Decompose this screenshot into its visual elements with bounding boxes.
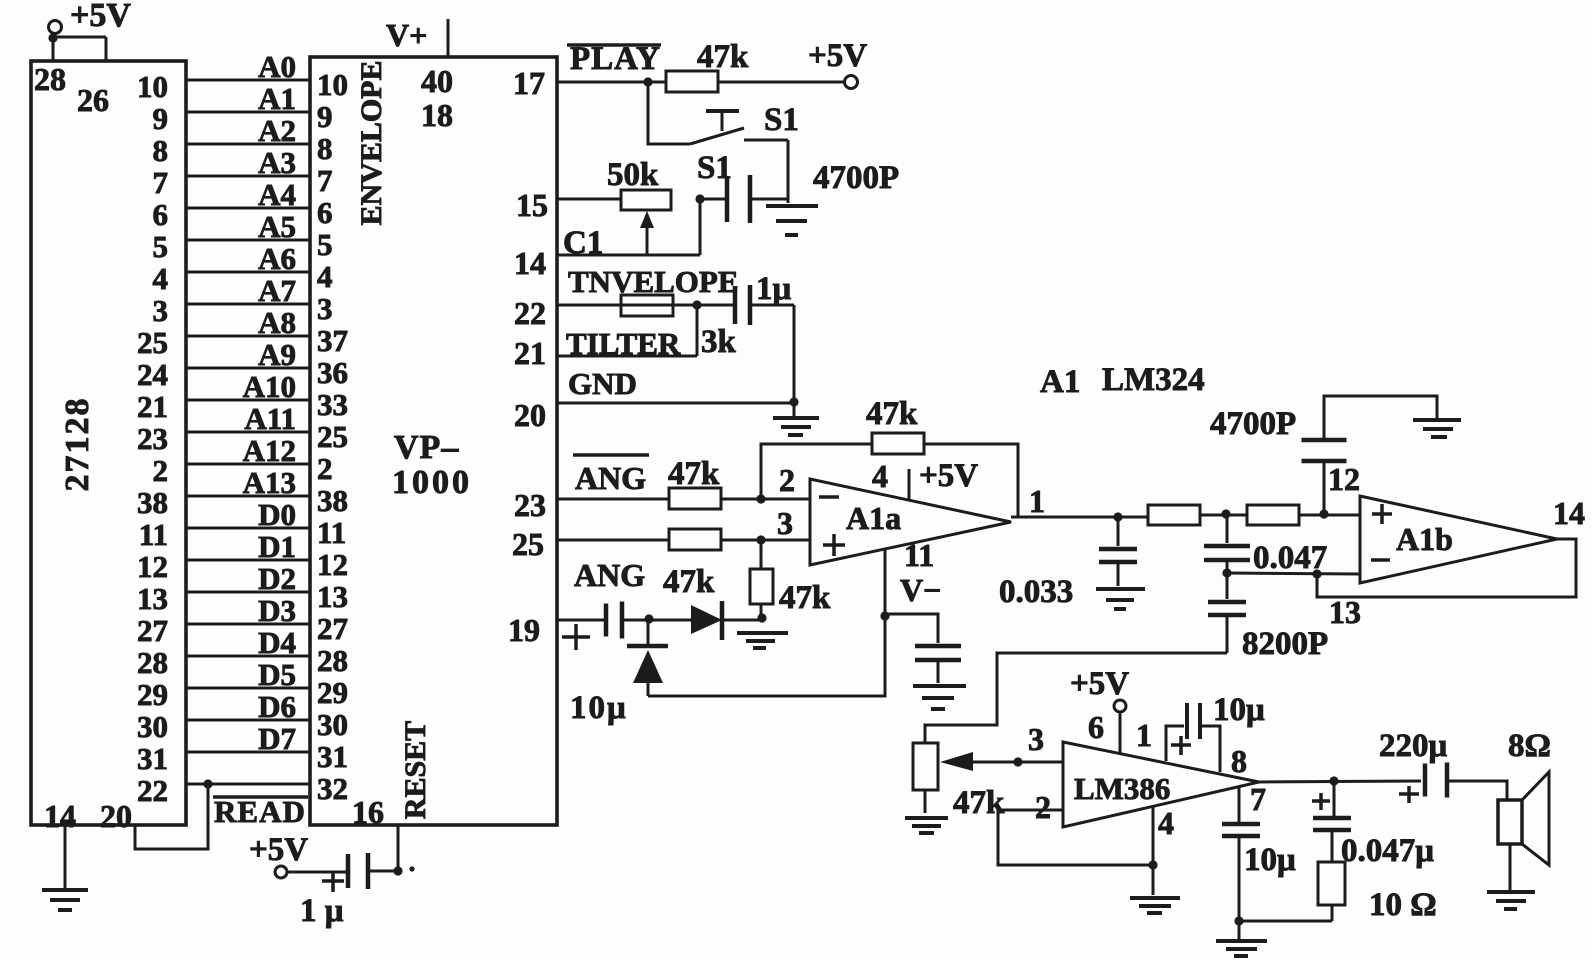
VP-1000 pin 16 label [352, 794, 384, 830]
svg-text:25: 25 [512, 526, 544, 562]
svg-text:13: 13 [317, 579, 348, 614]
svg-text:7: 7 [317, 163, 333, 198]
svg-text:20: 20 [100, 798, 132, 834]
svg-text:+5V: +5V [808, 38, 867, 74]
wire to A1a pin 3 [721, 535, 810, 544]
VP-1000 pin 40 V+ lead [386, 17, 448, 57]
svg-text:29: 29 [317, 675, 348, 710]
wire D1: 27128 pin 12 to VP-1000 pin 12 [137, 529, 348, 584]
svg-text:23: 23 [514, 487, 546, 523]
svg-text:+5V: +5V [1070, 666, 1129, 702]
ground (S1 / 4700P) [766, 206, 818, 235]
svg-text:12: 12 [1328, 461, 1360, 497]
svg-text:8Ω: 8Ω [1508, 728, 1551, 764]
label 10 ohm [1369, 887, 1437, 923]
svg-text:3k: 3k [701, 324, 737, 360]
wire 8200P to volume pot [925, 653, 1227, 743]
svg-text:15: 15 [516, 187, 548, 223]
svg-text:D6: D6 [258, 689, 296, 724]
svg-text:16: 16 [352, 794, 384, 830]
wire to VP-1000 pin 16 [398, 825, 415, 872]
wire A11: 27128 pin 23 to VP-1000 pin 25 [137, 401, 348, 456]
label ANG [574, 557, 645, 593]
VP-1000 pin 25 label [512, 526, 544, 562]
svg-text:19: 19 [508, 612, 540, 648]
svg-text:20: 20 [514, 397, 546, 433]
LM386 pin 1 label [1136, 717, 1152, 753]
svg-text:220μ: 220μ [1379, 728, 1448, 764]
svg-text:4: 4 [872, 458, 888, 494]
label 0.033 [999, 574, 1073, 610]
capacitor C2 4700P (keying) [695, 175, 788, 223]
svg-text:4: 4 [153, 261, 169, 296]
svg-text:1: 1 [1136, 717, 1152, 753]
A1b pin 14 label [1553, 495, 1585, 531]
LM386 pin 6 (+5V) [1070, 666, 1129, 754]
svg-text:2: 2 [779, 462, 795, 498]
svg-text:10μ: 10μ [1213, 692, 1265, 728]
wire A10: 27128 pin 21 to VP-1000 pin 33 [137, 369, 348, 424]
A1a pin 11 lead (V-) [880, 537, 941, 621]
capacitor C11 0.047u (zobel, + mark) [1312, 781, 1351, 862]
VP-1000 pin 20 label [514, 397, 546, 433]
label S1 (lower) [697, 150, 732, 186]
wire A7: 27128 pin 3 to VP-1000 pin 3 [153, 273, 333, 328]
wire LM386 output [1259, 776, 1421, 785]
IC U2 VP-1000 body [310, 57, 557, 825]
svg-text:1000: 1000 [392, 464, 472, 501]
capacitor C6 0.033 (to ground) [1099, 517, 1137, 586]
op-amp U3A A1a (LM324) [810, 479, 1011, 565]
wire VP-1000 pin 20 (GND) [558, 397, 799, 406]
svg-text:3: 3 [153, 293, 169, 328]
wire VP-1000 pin 15 [558, 198, 621, 201]
wiper wire to LM386 pin 3 [940, 752, 1063, 771]
svg-text:28: 28 [317, 643, 348, 678]
svg-text:40: 40 [421, 63, 453, 99]
speaker BL 8 ohm [1498, 772, 1549, 865]
wire A0: 27128 pin 10 to VP-1000 pin 10 [137, 49, 348, 104]
svg-text:D7: D7 [258, 721, 296, 756]
LM386 pin 2 label [1035, 789, 1051, 825]
svg-text:29: 29 [137, 677, 168, 712]
IC U1 27128 EPROM body [31, 61, 186, 825]
svg-text:1: 1 [1029, 483, 1045, 519]
wire READ loop: 27128 pin 22/20 to bus [135, 784, 208, 849]
wire D7: 27128 pin 31 to VP-1000 pin 31 [137, 721, 348, 776]
ground (LM386 pin 4) [1130, 898, 1180, 913]
ground (R6 / D1) [737, 633, 788, 648]
svg-text:14: 14 [44, 798, 76, 834]
svg-text:7: 7 [153, 165, 169, 200]
svg-text:GND: GND [568, 366, 637, 401]
A1b pin 12 label [1328, 461, 1360, 497]
svg-text:37: 37 [317, 323, 348, 358]
svg-text:18: 18 [421, 97, 453, 133]
LM386 pin 7 bypass [1222, 781, 1266, 926]
svg-text:47k: 47k [779, 580, 831, 616]
wire switch to ground node [787, 140, 790, 203]
A1b pin 13 label [1329, 594, 1361, 630]
svg-text:4: 4 [317, 259, 333, 294]
wire PLAY (VP-1000 pin 17) [558, 77, 666, 86]
svg-text:3: 3 [317, 291, 333, 326]
ground (speaker) [1487, 844, 1535, 909]
potentiometer RP1 50k [607, 157, 671, 255]
wire R7 to R8 [1200, 509, 1247, 518]
svg-text:1μ: 1μ [756, 271, 792, 307]
ground (V- filter) [913, 686, 966, 709]
svg-text:6: 6 [1088, 709, 1104, 745]
svg-text:13: 13 [1329, 594, 1361, 630]
wire A12: 27128 pin 2 to VP-1000 pin 2 [153, 433, 333, 488]
op-amp U3B A1b (LM324) [1360, 496, 1557, 583]
svg-text:D4: D4 [258, 625, 296, 660]
svg-text:ANG: ANG [575, 460, 646, 496]
label TILTER [566, 326, 681, 361]
svg-text:8: 8 [317, 131, 333, 166]
svg-text:A9: A9 [258, 337, 296, 372]
label READ (active low) [213, 794, 308, 829]
svg-text:+5V: +5V [919, 458, 978, 494]
svg-text:D3: D3 [258, 593, 296, 628]
svg-text:9: 9 [153, 101, 169, 136]
wire D0: 27128 pin 11 to VP-1000 pin 11 [139, 497, 347, 552]
ground (volume pot) [905, 818, 948, 833]
svg-text:10 Ω: 10 Ω [1369, 887, 1437, 923]
svg-text:26: 26 [77, 82, 109, 118]
svg-text:12: 12 [137, 549, 168, 584]
svg-text:RESET: RESET [399, 721, 432, 819]
svg-text:27: 27 [317, 611, 348, 646]
svg-text:9: 9 [317, 99, 333, 134]
wire to +5V [718, 81, 845, 84]
27128 pin 20 label [100, 798, 132, 834]
svg-text:14: 14 [1553, 495, 1585, 531]
label 4700P (A1b) [1210, 406, 1296, 442]
capacitor C3 1u [735, 271, 792, 325]
A1a pin 4 lead (+5V) [872, 458, 978, 500]
svg-text:27: 27 [137, 613, 168, 648]
label 4700P [813, 160, 899, 196]
power +5V terminal (reset) [249, 832, 308, 878]
svg-text:2: 2 [317, 451, 333, 486]
svg-text:22: 22 [137, 773, 168, 808]
svg-text:28: 28 [137, 645, 168, 680]
svg-text:11: 11 [139, 517, 168, 552]
svg-text:+5V: +5V [70, 0, 131, 34]
op-amp U4 LM386 power amplifier [1063, 742, 1259, 827]
wire to speaker [1447, 781, 1507, 800]
svg-text:17: 17 [513, 65, 545, 101]
wire LM386 pin 2 to ground loop [998, 810, 1158, 870]
VP-1000 pin 40 label [421, 63, 453, 99]
wire ANG (VP-1000 pin 23) [558, 498, 669, 501]
svg-text:23: 23 [137, 421, 168, 456]
label 1u (reset) [300, 893, 344, 929]
svg-text:A4: A4 [258, 177, 296, 212]
wire A2: 27128 pin 8 to VP-1000 pin 8 [153, 113, 333, 168]
ground (C6) [1096, 589, 1145, 609]
svg-text:11: 11 [317, 515, 346, 550]
wire VP-1000 pin 19 (oscillator out) [558, 619, 606, 622]
LM386 pin 4 lead [1153, 805, 1174, 895]
svg-text:LM324: LM324 [1102, 362, 1205, 398]
wire RD/CE: 27128 pin 22 to VP-1000 pin 32 [137, 771, 348, 808]
svg-text:5: 5 [317, 227, 333, 262]
svg-text:2: 2 [153, 453, 169, 488]
svg-text:A8: A8 [258, 305, 296, 340]
svg-text:V+: V+ [386, 17, 427, 53]
resistor R1 47k (PLAY pull-up) [666, 39, 749, 92]
svg-text:8200P: 8200P [1242, 626, 1328, 662]
svg-text:4700P: 4700P [813, 160, 899, 196]
diode D1 (series, to ground) [691, 601, 762, 640]
resistor R8 (filter) [1247, 505, 1299, 525]
svg-text:A13: A13 [243, 465, 296, 500]
svg-text:38: 38 [317, 483, 348, 518]
svg-text:1 μ: 1 μ [300, 893, 344, 929]
svg-text:D2: D2 [258, 561, 296, 596]
svg-text:28: 28 [34, 61, 66, 97]
wire R8 to A1b pin 12 [1299, 509, 1360, 518]
wire A1: 27128 pin 9 to VP-1000 pin 9 [153, 81, 333, 136]
svg-text:S1: S1 [764, 102, 799, 138]
label GND [568, 366, 637, 401]
ground (VP-1000 pin 20) [773, 403, 819, 435]
svg-text:10μ: 10μ [570, 690, 628, 726]
svg-text:30: 30 [137, 709, 168, 744]
svg-text:3: 3 [777, 505, 793, 541]
potentiometer RP2 47k (volume) [913, 743, 1005, 821]
svg-text:25: 25 [317, 419, 348, 454]
svg-text:6: 6 [153, 197, 169, 232]
svg-text:A3: A3 [258, 145, 296, 180]
27128 pin 28 label [34, 61, 66, 97]
VP-1000 pin 14 label [514, 245, 546, 281]
svg-text:A0: A0 [258, 49, 296, 84]
svg-text:31: 31 [137, 741, 168, 776]
A1b output feedback wire [1317, 539, 1576, 597]
svg-text:27128: 27128 [59, 397, 96, 492]
label 10u (pin 7 bypass) [1244, 842, 1296, 878]
label C1 [563, 225, 603, 261]
svg-text:A6: A6 [258, 241, 296, 276]
svg-text:47k: 47k [866, 396, 918, 432]
svg-text:C1: C1 [563, 225, 603, 261]
svg-text:ANG: ANG [574, 557, 645, 593]
svg-text:6: 6 [317, 195, 333, 230]
svg-text:A1a: A1a [846, 500, 901, 536]
wire D5: 27128 pin 29 to VP-1000 pin 29 [137, 657, 348, 712]
27128 pin 26 label [77, 82, 109, 118]
svg-text:0.047μ: 0.047μ [1341, 833, 1434, 869]
svg-text:10: 10 [137, 69, 168, 104]
svg-text:D1: D1 [258, 529, 296, 564]
wire ANG (VP-1000 pin 25) [558, 539, 669, 542]
VP-1000 pin 23 label [514, 487, 546, 523]
svg-text:A5: A5 [258, 209, 296, 244]
svg-text:A11: A11 [244, 401, 296, 436]
svg-text:5: 5 [153, 229, 169, 264]
VP-1000 pin 17 label [513, 65, 545, 101]
capacitor C9 4700P (A1b pin 12 to ground) [1302, 396, 1438, 514]
A1a pin 3 label [777, 505, 793, 541]
label 0.047u [1341, 833, 1434, 869]
VP-1000 pin 22 label [514, 295, 546, 331]
VP-1000 pin 19 label [508, 612, 540, 648]
capacitor C5 (V- filter) [885, 614, 961, 683]
svg-text:11: 11 [904, 537, 934, 573]
svg-text:READ: READ [214, 794, 306, 829]
label 8 ohm [1508, 728, 1551, 764]
resistor R7 (filter) [1148, 505, 1200, 525]
resistor R3 47k (A1a inverting input) [668, 456, 721, 509]
wire A5: 27128 pin 5 to VP-1000 pin 5 [153, 209, 333, 264]
svg-text:24: 24 [137, 357, 168, 392]
capacitor C4 10u (charge pump, + mark) [562, 602, 691, 651]
wire D4: 27128 pin 28 to VP-1000 pin 28 [137, 625, 348, 680]
wire D6: 27128 pin 30 to VP-1000 pin 30 [137, 689, 348, 744]
svg-text:31: 31 [317, 739, 348, 774]
label S1 (upper) [764, 102, 799, 138]
svg-text:A2: A2 [258, 113, 296, 148]
svg-text:4700P: 4700P [1210, 406, 1296, 442]
svg-text:21: 21 [514, 335, 546, 371]
LM386 pin 3 label [1028, 721, 1044, 757]
capacitor C12 220u (output coupling) [1379, 728, 1448, 803]
svg-text:50k: 50k [607, 157, 659, 193]
27128 pin 14 label [44, 798, 76, 834]
label 0.047 [1253, 540, 1327, 576]
wire to A1a pin 2 [721, 494, 810, 503]
wire VP-1000 pin 22 [558, 300, 735, 309]
feedback wire A1a [761, 444, 1018, 517]
label 8200P [1242, 626, 1328, 662]
resistor R6 47k (pin 3 to ground) [750, 540, 831, 623]
svg-text:A7: A7 [258, 273, 296, 308]
svg-text:8: 8 [153, 133, 169, 168]
resistor R9 10 ohm (zobel) [1239, 862, 1345, 921]
svg-text:7: 7 [1250, 781, 1266, 817]
svg-text:8: 8 [1231, 743, 1247, 779]
svg-text:ENVELOPE: ENVELOPE [355, 60, 388, 225]
svg-text:32: 32 [317, 771, 348, 806]
power +5V terminal (top-left, 27128 Vcc) [48, 0, 131, 61]
wire A1a output (pin 1) [1011, 512, 1148, 521]
svg-text:38: 38 [137, 485, 168, 520]
svg-text:A1: A1 [258, 81, 296, 116]
wire C7 to A1b pin 13 [1227, 569, 1360, 578]
label A1 LM324 [1040, 362, 1205, 400]
label TNVELOPE [568, 264, 739, 299]
svg-text:V−: V− [900, 572, 941, 608]
VP-1000 pin 18 label [421, 97, 453, 133]
svg-text:A12: A12 [243, 433, 296, 468]
label 10u (pump capacitor) [570, 690, 628, 726]
svg-text:21: 21 [137, 389, 168, 424]
svg-text:12: 12 [317, 547, 348, 582]
svg-text:TILTER: TILTER [566, 326, 681, 361]
svg-text:10μ: 10μ [1244, 842, 1296, 878]
VP-1000 pin 15 label [516, 187, 548, 223]
power +5V terminal (PLAY pull-up) [808, 38, 867, 89]
VP-1000 pin 21 label [514, 335, 546, 371]
wire VP-1000 pin 21 (TILTER) [558, 305, 697, 356]
ground (27128 pin 14) [42, 825, 88, 910]
capacitor C13 1u (reset, + mark) [287, 853, 403, 892]
ground (C9) [1413, 420, 1461, 437]
svg-text:4: 4 [1158, 805, 1174, 841]
svg-text:36: 36 [317, 355, 348, 390]
svg-text:10: 10 [317, 67, 348, 102]
wire A8: 27128 pin 25 to VP-1000 pin 37 [137, 305, 348, 360]
svg-text:25: 25 [137, 325, 168, 360]
svg-text:D0: D0 [258, 497, 296, 532]
resistor R2 3k [621, 295, 737, 360]
LM386 pin 8 label [1231, 743, 1247, 779]
label PLAY (active low) [567, 41, 661, 77]
svg-text:47k: 47k [697, 39, 749, 75]
label ANG (active low) [573, 455, 649, 496]
wire VP-1000 pin 14 (C1) [558, 199, 700, 255]
wire A9: 27128 pin 24 to VP-1000 pin 36 [137, 337, 348, 392]
A1a pin 1 label [1029, 483, 1045, 519]
svg-text:A10: A10 [243, 369, 296, 404]
resistor R5 47k (A1a non-inverting input) [663, 529, 721, 600]
svg-text:3: 3 [1028, 721, 1044, 757]
svg-text:13: 13 [137, 581, 168, 616]
wire A4: 27128 pin 6 to VP-1000 pin 6 [153, 177, 333, 232]
switch S1 (pushbutton) [648, 82, 788, 144]
svg-text:0.033: 0.033 [999, 574, 1073, 610]
svg-text:A1: A1 [1040, 364, 1080, 400]
wire A13: 27128 pin 38 to VP-1000 pin 38 [137, 465, 348, 520]
svg-text:2: 2 [1035, 789, 1051, 825]
A1a pin 2 label [779, 462, 795, 498]
resistor R4 47k (A1a feedback) [866, 396, 924, 454]
svg-text:D5: D5 [258, 657, 296, 692]
wire A6: 27128 pin 4 to VP-1000 pin 4 [153, 241, 333, 296]
wire 1u to ground rail [750, 305, 794, 402]
wire D2: 27128 pin 13 to VP-1000 pin 13 [137, 561, 348, 616]
svg-text:VP–: VP– [394, 429, 459, 466]
svg-text:+5V: +5V [249, 832, 308, 868]
svg-text:LM386: LM386 [1074, 771, 1170, 806]
svg-text:22: 22 [514, 295, 546, 331]
capacitor C10 10u (LM386 pins 1-8) [1166, 703, 1220, 772]
capacitor C7 0.047 [1204, 515, 1250, 578]
svg-text:30: 30 [317, 707, 348, 742]
svg-text:14: 14 [514, 245, 546, 281]
wire A3: 27128 pin 7 to VP-1000 pin 7 [153, 145, 333, 200]
svg-text:A1b: A1b [1396, 521, 1453, 557]
label 10u (bootstrap) [1213, 692, 1265, 728]
diode D2 (shunt, pump) [627, 619, 668, 696]
wire D3: 27128 pin 27 to VP-1000 pin 27 [137, 593, 348, 648]
ground (pin 7 / zobel) [1216, 921, 1267, 956]
wire V- rail [648, 616, 885, 696]
capacitor C8 8200P (coupling) [1208, 573, 1246, 653]
svg-text:47k: 47k [663, 564, 715, 600]
svg-text:33: 33 [317, 387, 348, 422]
svg-text:47k: 47k [668, 456, 720, 492]
